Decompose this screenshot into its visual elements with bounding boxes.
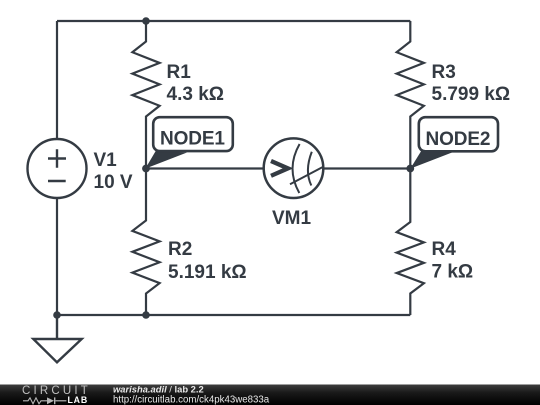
voltage source V1	[28, 139, 87, 198]
wire middle right (VM1 to NODE2)	[323, 167, 410, 169]
label R3	[432, 62, 511, 105]
wire middle left (NODE1 to VM1)	[146, 167, 264, 169]
svg-text:warisha.adil / lab 2.2: warisha.adil / lab 2.2	[113, 384, 204, 395]
junction dot ground tap	[53, 311, 61, 319]
svg-text:7 kΩ: 7 kΩ	[432, 261, 474, 282]
wire top rail	[57, 20, 410, 22]
svg-text:VM1: VM1	[272, 208, 312, 229]
resistor R2	[132, 169, 159, 316]
svg-text:NODE1: NODE1	[160, 129, 225, 150]
label R4	[432, 239, 474, 282]
node NODE2 callout tail	[410, 151, 452, 169]
ground	[33, 315, 81, 362]
svg-text:R4: R4	[432, 239, 457, 260]
svg-text:5.799 kΩ: 5.799 kΩ	[432, 84, 511, 105]
node NODE1 callout tail	[145, 151, 187, 169]
svg-text:V1: V1	[94, 150, 118, 171]
resistor R4	[397, 169, 424, 316]
svg-text:10 V: 10 V	[94, 172, 133, 193]
svg-text:5.191 kΩ: 5.191 kΩ	[168, 262, 247, 283]
wire left rail upper (V1 top lead)	[56, 21, 58, 139]
svg-text:NODE2: NODE2	[426, 129, 491, 150]
resistor R3	[397, 21, 424, 169]
svg-text:R1: R1	[167, 62, 192, 83]
resistor R1	[132, 21, 159, 169]
svg-text:R2: R2	[168, 239, 192, 260]
node NODE1 callout box	[153, 117, 233, 151]
wire bottom rail	[57, 314, 410, 316]
svg-text:R3: R3	[432, 62, 456, 83]
junction dot top of R1	[142, 17, 150, 25]
wire left rail lower (V1 bottom lead)	[56, 198, 58, 315]
junction dot NODE1	[142, 165, 150, 173]
node NODE2 callout box	[419, 117, 498, 151]
logo squiggle resistor	[23, 398, 47, 404]
junction dot NODE2	[406, 165, 414, 173]
label V1	[94, 150, 133, 193]
svg-text:4.3 kΩ: 4.3 kΩ	[167, 84, 225, 105]
label R2	[168, 239, 247, 283]
svg-text:LAB: LAB	[68, 395, 88, 405]
label R1	[167, 62, 225, 105]
junction dot R2 bottom	[142, 311, 150, 319]
svg-text:http://circuitlab.com/ck4pk43w: http://circuitlab.com/ck4pk43we833a	[113, 394, 270, 405]
voltmeter VM1	[264, 138, 324, 198]
logo diode	[47, 397, 66, 404]
footer bar	[0, 385, 540, 405]
